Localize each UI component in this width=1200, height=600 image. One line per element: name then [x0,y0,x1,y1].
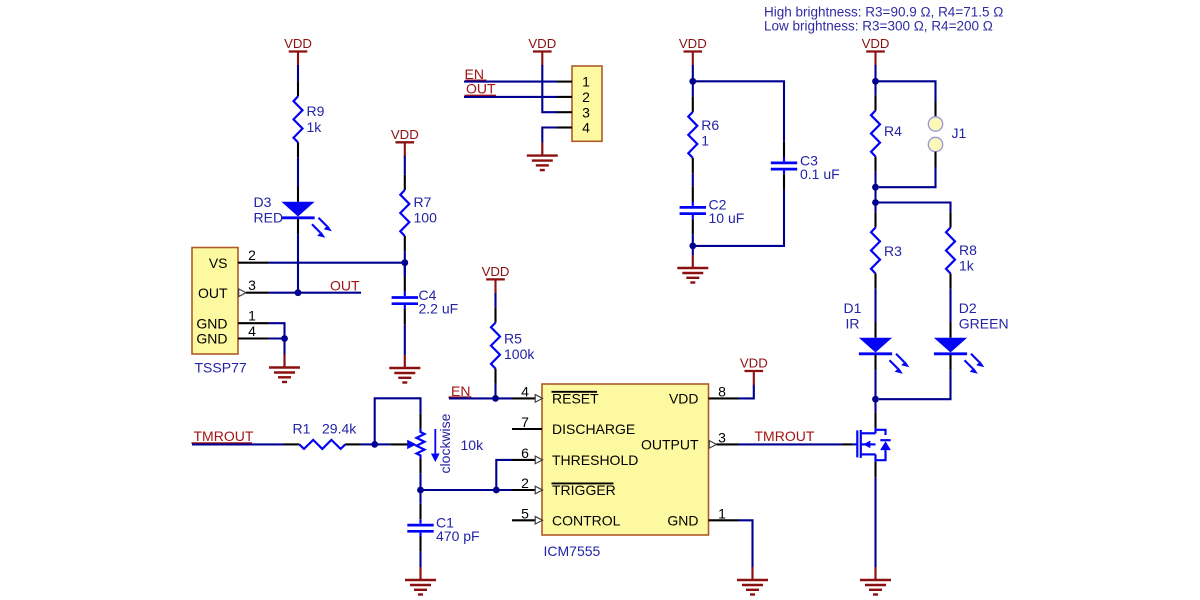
ground (C2/C3) [677,255,708,283]
power VDD (LED driver column) [862,36,890,65]
svg-text:D2: D2 [959,300,977,316]
resistor R3 [871,212,880,289]
IC TSSP77 box [192,248,238,355]
wire VS net to R7/C4 node [269,262,405,264]
node C2/C3 ground junction [689,243,696,250]
ground (TSSP77) [269,355,300,383]
wire R1 to wiper node [361,443,375,445]
node D1/D2 junction [872,396,879,403]
svg-text:R6: R6 [701,117,719,133]
svg-text:GND: GND [196,331,227,347]
svg-text:3: 3 [718,429,726,445]
pin name RESET (with overline) [552,391,600,407]
wire C4 to ground [404,324,406,355]
svg-text:TSSP77: TSSP77 [195,360,247,376]
svg-text:CONTROL: CONTROL [552,512,621,528]
resistor R6 [688,97,697,174]
svg-text:R8: R8 [959,242,977,258]
svg-text:470 pF: 470 pF [436,528,480,544]
svg-text:OUTPUT: OUTPUT [641,437,699,453]
ground (ICM7555) [737,567,768,595]
svg-text:2: 2 [521,475,529,491]
svg-text:Low brightness: R3=300 Ω, R4=2: Low brightness: R3=300 Ω, R4=200 Ω [764,18,993,33]
svg-text:OUT: OUT [466,80,496,96]
LED D1 [859,323,910,374]
pin 8 stub (VDD) [709,397,739,399]
svg-text:0.1 uF: 0.1 uF [800,166,840,182]
capacitor C1 [407,490,433,567]
svg-text:10 uF: 10 uF [709,210,745,226]
wire wiper [375,443,391,445]
wire J1 bottom to R4 bottom node [879,167,936,187]
potentiometer wiper arrow [390,440,416,449]
wire R9 to D3 [297,158,299,187]
pin 4 stub (RESET) [512,395,543,403]
connector pin 3 stub [557,111,572,113]
wire VDD to connector pin 3 [542,65,557,112]
svg-text:R9: R9 [307,103,325,119]
wire R4 to R3/R8 nodes [874,172,876,212]
power VDD (pin 8) [740,356,768,385]
svg-text:4: 4 [521,383,529,399]
node pot/C1 junction [417,487,424,494]
pin 7 stub (DISCHARGE) [512,428,542,430]
resistor R4 [871,95,880,172]
LED D2 [934,323,985,374]
node R5/EN junction [492,395,499,402]
net label TMROUT (left) [192,428,254,444]
wire GND pins to ground [269,323,285,354]
pin 1 stub (GND) [709,519,739,521]
wire branch to C3 [693,81,784,141]
resistor R1 [284,440,361,449]
wire EN net to connector pin 1 [464,81,557,83]
svg-text:2: 2 [582,89,590,105]
svg-text:29.4k: 29.4k [322,421,357,437]
wire connector pin 4 to ground [542,128,557,143]
svg-text:3: 3 [582,104,590,120]
wire branch to R8 [876,203,951,213]
svg-text:1: 1 [248,308,256,324]
node R1/pot wiper junction [371,441,378,448]
node VS/R7/C4 junction [401,259,408,266]
svg-text:GND: GND [667,512,698,528]
wire D1 cathode to MOSFET drain [874,370,876,412]
wire loop to pot top [375,398,421,444]
svg-text:1: 1 [718,505,726,521]
svg-text:clockwise: clockwise [437,413,453,473]
pin 3 stub (OUTPUT) [709,441,738,449]
wire C3 bottom to junction [693,190,784,246]
wire R6 to C2 [692,173,694,186]
net label EN (reset) [449,383,472,399]
svg-text:RED: RED [254,210,284,226]
svg-text:D1: D1 [844,300,862,316]
power VDD (R9 column) [284,36,312,65]
svg-text:10k: 10k [461,437,485,453]
svg-text:R1: R1 [293,421,311,437]
wire VDD to R5 [494,293,496,307]
svg-text:R4: R4 [884,123,902,139]
potentiometer 10k body [417,414,425,474]
resistor R8 [946,212,955,289]
svg-text:J1: J1 [952,125,967,141]
svg-text:1: 1 [701,133,709,149]
node D3/OUT junction [295,289,302,296]
clockwise direction arrow [431,429,440,462]
svg-text:VS: VS [209,255,228,271]
power VDD (connector column) [528,36,556,65]
resistor R9 [294,81,303,158]
svg-text:TRIGGER: TRIGGER [552,482,616,498]
svg-text:GND: GND [196,315,227,331]
connector J box [572,66,602,141]
node J1/R4 junction [872,184,879,191]
net label EN [465,66,487,82]
svg-text:VDD: VDD [669,391,699,407]
node R3/R8 junction [872,199,879,206]
svg-text:1: 1 [582,74,590,90]
wire trigger/threshold net [421,460,513,490]
wire VDD down to R6 [692,65,694,97]
svg-text:1k: 1k [959,258,975,274]
jumper J1 [928,102,942,168]
node VDD/R6/C3 junction [689,78,696,85]
power VDD (R7 column) [391,127,419,156]
svg-text:3: 3 [248,277,256,293]
connector pin 4 stub [557,126,572,128]
wire R8 to D2 [949,289,951,323]
wire MOSFET gate stub [842,443,853,445]
capacitor C2 [680,186,706,234]
resistor R5 [491,307,500,384]
svg-text:2: 2 [248,247,256,263]
svg-text:7: 7 [521,414,529,430]
connector pin 1 stub [557,81,572,83]
wire VDD down to R4 [874,65,876,95]
svg-text:5: 5 [521,505,529,521]
wire VDD pin 8 [739,385,754,399]
pin 3 stub (OUT) [239,289,269,297]
wire TMROUT net to R1 [192,443,284,445]
node GND pins junction [281,335,288,342]
transistor Q1 MOSFET [853,412,891,477]
svg-text:8: 8 [718,383,726,399]
ground (C4) [389,355,420,383]
wire R5 to EN net [494,384,496,399]
svg-text:2.2 uF: 2.2 uF [419,300,459,316]
resistor R7 [400,175,409,252]
svg-text:DISCHARGE: DISCHARGE [552,421,635,437]
wire pot bottom to threshold/trigger net [419,474,421,490]
svg-text:RESET: RESET [552,391,599,407]
node trigger/threshold junction [493,487,500,494]
wire VDD to R9 [297,65,299,81]
svg-text:6: 6 [521,445,529,461]
svg-text:R7: R7 [414,194,432,210]
pin 4 stub (GND) [238,337,269,339]
svg-text:ICM7555: ICM7555 [544,543,601,559]
wire branch to J1 [876,81,936,101]
svg-text:D3: D3 [254,194,272,210]
wire C2 to ground [692,234,694,255]
wire VDD to R7 [404,156,406,175]
LED D3 [281,187,332,238]
wire OUT net to connector pin 2 [464,96,557,98]
wire GND pin 1 to ground [739,520,753,567]
svg-text:THRESHOLD: THRESHOLD [552,452,638,468]
wire R3 to D1 [874,289,876,323]
connector pin 2 stub [557,96,572,98]
wire D3 cathode to OUT node [297,234,299,293]
svg-text:IR: IR [846,316,860,332]
svg-text:GREEN: GREEN [959,316,1009,332]
svg-text:TMROUT: TMROUT [194,428,254,444]
svg-text:R3: R3 [884,243,902,259]
wire OUTPUT to MOSFET gate [739,443,842,445]
pin name TRIGGER (with overline) [552,482,616,498]
net label OUT [330,277,360,293]
ground (MOSFET source) [860,567,891,595]
wire MOSFET source to ground [874,477,876,567]
pin 5 stub (CONTROL) [512,517,543,525]
svg-text:TMROUT: TMROUT [755,428,815,444]
wire D2 cathode to drain node [879,370,951,399]
pin 2 stub (VS) [238,262,269,264]
svg-text:OUT: OUT [198,285,228,301]
net label TMROUT (output) [755,428,815,444]
svg-text:High brightness: R3=90.9 Ω, R4: High brightness: R3=90.9 Ω, R4=71.5 Ω [764,4,1003,19]
svg-text:OUT: OUT [330,277,360,293]
net label OUT (connector) [465,80,497,96]
svg-text:R5: R5 [504,331,522,347]
wire R7 to VS node to C4 [404,251,406,276]
capacitor C4 [392,263,418,325]
IC U1 ICM7555 box [542,384,709,535]
capacitor C3 [771,142,797,190]
svg-text:4: 4 [582,120,590,136]
wire OUT net [269,292,361,294]
svg-text:100: 100 [414,210,438,226]
pin 1 stub (GND) [238,322,269,324]
pin 2 stub (TRIGGER) [512,486,543,494]
ground (C1) [405,567,436,595]
pin 6 stub (THRESHOLD) [512,456,543,464]
power VDD (R5 column) [482,264,510,293]
node VDD/R4/J1 junction [872,78,879,85]
svg-text:100k: 100k [504,346,535,362]
wire EN net to RESET pin [449,397,512,399]
svg-text:4: 4 [248,323,256,339]
ground (connector) [527,143,558,171]
svg-text:1k: 1k [307,119,323,135]
power VDD (R6 column) [679,36,707,65]
